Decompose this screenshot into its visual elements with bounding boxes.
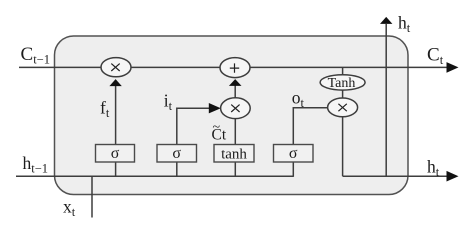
wire: tanh box up to X2	[234, 112, 236, 145]
svg-text:~: ~	[213, 120, 221, 135]
svg-text:σ: σ	[172, 145, 181, 162]
svg-text:σ: σ	[289, 145, 298, 162]
add node +	[220, 58, 250, 78]
wire: C line down through Tanh to X3	[342, 67, 344, 104]
gate box tanh	[214, 145, 254, 163]
Tanh ellipse	[320, 75, 365, 90]
wire: ft line sigma1 up to multiply	[115, 85, 117, 146]
arrowhead Ct	[447, 62, 459, 73]
wire: X2 up to plus	[234, 85, 236, 100]
wire: stub below tanh box	[234, 162, 236, 176]
multiply node X1 (forget gate)	[101, 58, 131, 77]
arrowhead it into X2	[209, 103, 221, 113]
wire: h rail from ht-1	[16, 175, 293, 177]
arrowhead ft into X1	[109, 79, 121, 86]
wire: output h line to ht arrow	[343, 175, 447, 177]
wire: X3 down to output h line	[342, 110, 344, 176]
arrowhead ht right	[447, 171, 459, 182]
wire: stub below sigma2	[176, 162, 178, 176]
gate box sigma1	[96, 145, 135, 163]
arrowhead ht up	[380, 17, 392, 24]
LSTM cell body	[55, 36, 409, 195]
svg-text:Tanh: Tanh	[328, 76, 356, 91]
wire: ht branch up to top arrow	[385, 24, 387, 176]
wire: cell-state line Ct-1 to Ct	[19, 66, 447, 68]
svg-text:σ: σ	[111, 145, 120, 162]
arrowhead into plus	[229, 79, 242, 86]
wire: stub below sigma1	[115, 162, 117, 176]
multiply node X3 (output gate)	[328, 98, 358, 117]
gate box sigma2	[157, 145, 197, 163]
multiply node X2 (input gate)	[221, 98, 251, 119]
wire: stub below sigma3 (rail end)	[292, 162, 294, 177]
wire: xt input vertical	[91, 176, 93, 217]
svg-text:tanh: tanh	[221, 147, 247, 163]
wire: ot path from sigma3 to X3	[293, 108, 330, 145]
gate box sigma3	[274, 145, 314, 163]
wire: it path from sigma2	[177, 108, 210, 145]
